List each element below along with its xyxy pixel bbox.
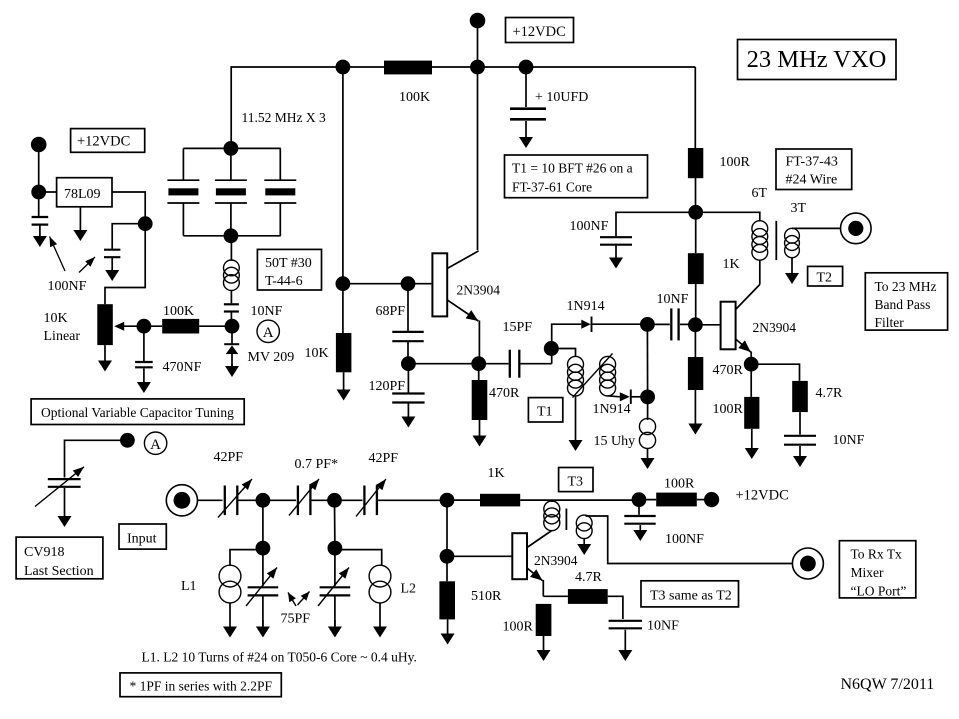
wire: decoupling branch (616, 212, 696, 236)
capacitor 10NF (Q3 bypass) (609, 621, 642, 629)
svg-text:68PF: 68PF (376, 304, 406, 319)
inductor 50T #30 coil (224, 236, 240, 291)
ground under 510R (441, 619, 455, 644)
test point A (varactor) (257, 320, 279, 342)
label 68PF (376, 304, 406, 319)
svg-text:+12VDC: +12VDC (77, 134, 130, 150)
regulator 78L09 box (57, 178, 112, 207)
title box 23 MHz VXO (738, 40, 897, 80)
ground under output 100NF (105, 258, 119, 281)
ground under 75PF (second) (328, 620, 342, 638)
capacitor 100NF (T2 node) (600, 237, 632, 245)
node: Q2 base (688, 317, 703, 332)
svg-text:“LO Port”: “LO Port” (851, 584, 907, 599)
capacitor 470NF (135, 333, 153, 367)
svg-text:+12VDC: +12VDC (513, 24, 566, 40)
svg-text:10NF: 10NF (833, 433, 865, 448)
svg-text:FT-37-61 Core: FT-37-61 Core (512, 180, 592, 195)
wire: base net to Q1 (343, 283, 433, 285)
ground under 470R (Q2) (688, 390, 702, 435)
transformer T3 secondary (576, 515, 592, 539)
resistor 470R (Q1 emitter) (472, 364, 488, 420)
resistor 100K (top bias) (384, 61, 432, 75)
T2 core bar (775, 221, 777, 260)
capacitor 100NF (input) (32, 217, 49, 225)
svg-text:1N914: 1N914 (593, 402, 631, 417)
svg-text:4.7R: 4.7R (816, 386, 844, 401)
terminal +12VDC top (470, 13, 486, 29)
terminal +12VDC left (31, 137, 47, 153)
svg-text:120PF: 120PF (369, 379, 406, 394)
svg-text:Mixer: Mixer (851, 565, 884, 580)
diode 1N914 (top) (581, 317, 641, 333)
capacitor + 10UFD (510, 67, 588, 119)
node: rail junction to oscillator base feed (336, 60, 351, 75)
wire: T2 primary top (696, 212, 760, 221)
ground under 470R (473, 420, 487, 447)
svg-text:N6QW 7/2011: N6QW 7/2011 (841, 676, 935, 693)
wire: base to Q3 (447, 555, 512, 557)
svg-text:10NF: 10NF (647, 619, 679, 634)
node: 68PF tap (401, 276, 416, 291)
label 15PF (503, 320, 533, 335)
svg-text:T3: T3 (568, 475, 584, 490)
pot wiper arrow (114, 322, 145, 331)
svg-text:A: A (150, 437, 161, 453)
svg-text:470R: 470R (489, 386, 520, 401)
Q1 emitter lead with arrow (448, 300, 480, 364)
svg-text:470R: 470R (713, 363, 744, 378)
box To 23 MHz Band Pass Filter (865, 273, 947, 330)
label 15 Uhy (594, 434, 636, 449)
svg-text:10NF: 10NF (251, 304, 283, 319)
label 6T (752, 186, 768, 201)
svg-text:Linear: Linear (44, 329, 81, 344)
wire: tap to T1 primary (551, 349, 575, 358)
wire from +12V terminal down (38, 145, 40, 217)
svg-text:100R: 100R (720, 155, 751, 170)
label MV 209 (248, 350, 295, 365)
svg-text:100R: 100R (503, 620, 534, 635)
svg-text:#24 Wire: #24 Wire (786, 173, 838, 188)
label 75PF (281, 612, 311, 627)
box FT-37-43 #24 Wire (776, 149, 852, 190)
terminal +12VDC (bottom) (704, 492, 719, 507)
label 510R (471, 589, 502, 604)
node at 78L09 input (31, 185, 46, 200)
wire: +12V drop to Q1 collector (477, 21, 479, 251)
node at varactor (225, 319, 240, 334)
box T1 (528, 398, 562, 422)
label 11.52 MHz X 3 (242, 110, 326, 125)
box note 1PF series (120, 673, 281, 697)
wire: secondary to output (792, 227, 840, 229)
svg-text:MV 209: MV 209 (248, 350, 295, 365)
resistor 100R (collector feed) (688, 148, 703, 178)
wire: up to diode (552, 324, 582, 348)
svg-text:2N3904: 2N3904 (534, 553, 578, 568)
transformer T2 secondary 3T (785, 228, 800, 257)
ground under 75PF (first) (256, 620, 270, 638)
ground under input 100NF (33, 226, 47, 248)
label 470R (Q2) (713, 363, 744, 378)
node on crystal top bus (224, 141, 239, 156)
box T3 same as T2 (641, 581, 739, 607)
box To Rx Tx Mixer LO Port (839, 541, 915, 599)
transistor Q3 2N3904 body (512, 533, 527, 579)
label 10NF (varactor) (251, 304, 283, 319)
svg-text:1K: 1K (488, 466, 505, 481)
svg-text:100R: 100R (713, 402, 744, 417)
box +12VDC (top) (506, 18, 574, 43)
transformer T3 primary (544, 500, 560, 531)
svg-text:100NF: 100NF (48, 279, 87, 294)
label 100K (399, 90, 430, 105)
label 1N914 (bottom) (593, 402, 631, 417)
wire+ arrow below CV918 cap (58, 488, 72, 527)
svg-text:CV918: CV918 (24, 545, 64, 560)
inductor L1 (219, 565, 241, 603)
svg-text:2N3904: 2N3904 (753, 320, 797, 335)
svg-text:* 1PF in series with 2.2PF: * 1PF in series with 2.2PF (130, 679, 273, 694)
svg-text:+12VDC: +12VDC (736, 488, 789, 504)
box +12VDC (left) (71, 129, 145, 153)
svg-text:15 Uhy: 15 Uhy (594, 434, 636, 449)
node: filter node 2 (327, 493, 342, 508)
transformer T2 primary 6T (752, 221, 768, 285)
svg-text:6T: 6T (752, 186, 768, 201)
label 120PF (369, 379, 406, 394)
svg-text:10K: 10K (44, 311, 68, 326)
transformer T1 secondary winding (600, 356, 616, 396)
svg-text:FT-37-43: FT-37-43 (786, 155, 838, 170)
wire: emitter to 4.7R (751, 364, 799, 381)
node: +12V rail at collector feed (470, 60, 485, 75)
svg-text:470NF: 470NF (163, 360, 202, 375)
capacitor 10NF (interstage) (647, 308, 690, 340)
svg-text:Optional Variable Capacitor Tu: Optional Variable Capacitor Tuning (41, 405, 234, 420)
capacitor 100NF (output) (104, 250, 120, 258)
svg-text:23 MHz VXO: 23 MHz VXO (747, 46, 887, 73)
node: Q2 emitter (744, 357, 759, 372)
wire: 9V to potentiometer (105, 224, 145, 305)
varactor MV209 (224, 333, 239, 366)
wire: crystal bottom bus (183, 235, 280, 237)
box 50T #30 T-44-6 (257, 249, 321, 290)
wire: to L1 (230, 550, 263, 566)
label 3T (791, 201, 807, 216)
svg-text:3T: 3T (791, 201, 807, 216)
wire: T1 secondary to diode (608, 396, 620, 397)
Q2 collector lead (736, 285, 760, 310)
resistor 100K (tuning) (144, 319, 232, 334)
svg-text:100NF: 100NF (665, 532, 704, 547)
svg-text:4.7R: 4.7R (575, 570, 603, 585)
label 100R (+12V) (664, 477, 695, 492)
test point A (tuning) (144, 432, 166, 454)
box Input (119, 524, 166, 549)
variable capacitor 75PF (second) (318, 548, 350, 626)
node: filter node 1 (256, 493, 271, 508)
ground under 15 Uhy (641, 448, 655, 469)
wire: crystal top bus (183, 147, 280, 149)
wire: 78L09 output (112, 192, 145, 224)
resistor 100R (+12V entry) (639, 493, 705, 507)
ground under 120PF (401, 404, 415, 428)
diode 1N914 (bottom) (620, 390, 641, 405)
label 10NF (interstage) (657, 292, 689, 307)
svg-text:To Rx Tx: To Rx Tx (851, 547, 903, 562)
svg-text:Input: Input (127, 532, 157, 547)
crystal Y1 11.52 MHz (167, 148, 199, 235)
box T3 (559, 468, 593, 492)
ground under 470NF (137, 369, 151, 394)
ground pin of 78L09 (73, 207, 87, 241)
transformer T1 primary winding (568, 356, 584, 396)
svg-text:15PF: 15PF (503, 320, 533, 335)
wire: rail corner down to 100R (694, 67, 696, 149)
label 100NF with pointer arrows (48, 237, 96, 295)
transistor Q2 2N3904 body (721, 302, 736, 350)
label 42PF (second) (369, 451, 399, 466)
svg-text:100K: 100K (163, 304, 194, 319)
wire: to L2 (335, 550, 382, 566)
label +12VDC (bottom) (736, 488, 789, 504)
label 1K (driver) (488, 466, 505, 481)
ground under 10K (337, 372, 351, 400)
transistor Q1 2N3904 body (432, 253, 447, 316)
label 100K (tuning) (163, 304, 194, 319)
label 100NF (T2 node) (570, 219, 609, 234)
node at 9V output (138, 216, 153, 231)
label 100R (Q3) (503, 620, 534, 635)
svg-text:To 23 MHz: To 23 MHz (875, 279, 937, 294)
label 42PF (first) (214, 450, 244, 465)
resistor 1K (driver base feed) (447, 494, 632, 507)
output connector (23 MHz) (841, 213, 872, 244)
resistor 4.7R (Q3) (543, 589, 623, 619)
variable capacitor 0.7 PF* (289, 479, 328, 516)
variable capacitor CV918 (35, 467, 84, 507)
ground under Q2 100R (745, 429, 759, 459)
svg-text:75PF: 75PF (281, 612, 311, 627)
node: L2 tank (328, 541, 343, 556)
label 470R (Q1) (489, 386, 520, 401)
svg-text:T1 = 10 BFT #26 on a: T1 = 10 BFT #26 on a (512, 161, 633, 176)
node: +12V entry node (632, 492, 647, 507)
label 0.7 PF* (295, 457, 339, 472)
variable capacitor 42PF (first) (218, 479, 256, 518)
wire: crystal top bus riser and +12V rail corner (231, 67, 695, 148)
wire (263, 499, 296, 501)
input connector (166, 485, 197, 516)
ground under MV209 (225, 364, 239, 377)
node: oscillator base net (336, 276, 351, 291)
svg-text:T-44-6: T-44-6 (265, 274, 303, 289)
T3 core bar (565, 509, 567, 531)
svg-text:42PF: 42PF (214, 450, 244, 465)
node on crystal bottom bus (224, 228, 239, 243)
node: L1 tank (256, 541, 271, 556)
label 10NF (Q2) (833, 433, 865, 448)
capacitor 10NF (Q2 bypass) (784, 412, 816, 445)
svg-text:Filter: Filter (875, 315, 905, 330)
svg-text:A: A (263, 325, 274, 341)
ground under Q3 100R (537, 636, 551, 661)
ground under 100NF (609, 246, 623, 269)
variable capacitor 42PF (second) (356, 479, 440, 517)
label 2N3904 (Q2) (753, 320, 797, 335)
svg-text:1K: 1K (723, 257, 740, 272)
LO port connector (792, 548, 823, 579)
ground under L1 (223, 603, 237, 638)
wire: node2 down (334, 500, 336, 548)
capacitor 68PF (392, 284, 423, 364)
capacitor 100NF (+12V entry) (624, 500, 655, 524)
svg-text:2N3904: 2N3904 (457, 283, 501, 298)
label 1N914 (top) (567, 299, 605, 314)
resistor 100R (Q2 emitter) (744, 364, 759, 429)
svg-text:+ 10UFD: + 10UFD (535, 90, 588, 105)
node: filter node 3 (440, 493, 455, 508)
inductor L2 (369, 565, 391, 603)
node: AGC bottom (640, 390, 655, 405)
resistor 510R (439, 556, 455, 619)
svg-text:T2: T2 (817, 271, 833, 286)
label 100R (Q2) (713, 402, 744, 417)
ground under L2 (373, 603, 387, 638)
wire: input to 42PF (198, 499, 223, 501)
svg-text:100R: 100R (664, 477, 695, 492)
label 100R (top) (720, 155, 751, 170)
ground under T2 secondary (785, 257, 799, 284)
label 10NF (Q3) (647, 619, 679, 634)
wire: 100R to node chain (695, 178, 697, 212)
label 2N3904 (Q1) (457, 283, 501, 298)
label L2 (401, 582, 417, 597)
svg-text:78L09: 78L09 (64, 187, 101, 202)
box T2 (808, 266, 843, 286)
label L1 (181, 579, 197, 594)
svg-text:100K: 100K (399, 90, 430, 105)
wire: AGC vertical (646, 324, 648, 397)
note L1 L2 winding (142, 650, 417, 665)
Q3 emitter lead with arrow (527, 568, 543, 596)
label 4.7R (Q3) (575, 570, 603, 585)
wire: emitter node segment (408, 363, 478, 365)
capacitor 120PF (392, 364, 424, 403)
capacitor 15PF (479, 350, 552, 378)
resistor 470R (Q2 base-gnd) (688, 325, 703, 390)
svg-text:10K: 10K (305, 346, 329, 361)
T1 coupling slash (573, 354, 613, 398)
node: T2 feed (688, 205, 703, 220)
ground under T3 secondary (577, 539, 591, 556)
node: detector tap (544, 341, 559, 364)
box CV918 Last Section (16, 537, 103, 579)
potentiometer 10K Linear (97, 304, 113, 345)
inductor 15 Uhy (639, 397, 655, 449)
wire to output 100NF (112, 224, 145, 249)
resistor 100R (Q3 emitter) (536, 604, 552, 636)
crystal Y3 11.52 MHz (264, 148, 296, 235)
label 2N3904 (Q3) (534, 553, 578, 568)
svg-text:11.52 MHz X 3: 11.52 MHz X 3 (242, 110, 326, 125)
capacitor 10NF (varactor coupling) (224, 291, 239, 319)
label 10K (305, 346, 329, 361)
svg-text:0.7 PF*: 0.7 PF* (295, 457, 339, 472)
ground under potentiometer (98, 345, 112, 371)
signature N6QW 7/2011 (841, 676, 935, 693)
node: feedback divider (401, 356, 416, 371)
svg-text:T1: T1 (537, 405, 553, 420)
ground under Q2 10NF (793, 446, 807, 467)
wire: node1 down (262, 500, 264, 548)
svg-text:10NF: 10NF (657, 292, 689, 307)
wire: base to Q2 (695, 324, 720, 326)
label 100NF (entry) (665, 532, 704, 547)
svg-text:50T #30: 50T #30 (265, 256, 312, 271)
svg-text:L1. L2 10 Turns of #24 on T050: L1. L2 10 Turns of #24 on T050-6 Core ~ … (142, 650, 417, 665)
label 1K (723, 257, 740, 272)
label 10K Linear (44, 311, 81, 344)
variable capacitor 75PF (first) (246, 548, 278, 626)
ground under T1 primary (569, 396, 583, 451)
svg-text:L2: L2 (401, 582, 417, 597)
ground under entry 100NF (633, 525, 647, 541)
Q3 collector lead (527, 531, 552, 548)
svg-text:42PF: 42PF (369, 451, 399, 466)
Q1 collector lead (447, 251, 478, 269)
resistor 4.7R (Q2) (792, 381, 808, 412)
resistor 10K (base to gnd) (336, 284, 352, 373)
node: rail at 10UFD (519, 60, 534, 75)
box T1 winding note (505, 155, 648, 198)
svg-text:100NF: 100NF (570, 219, 609, 234)
wire: node3 down (446, 500, 448, 556)
ground under Q3 10NF (618, 630, 632, 661)
svg-text:T3 same as T2: T3 same as T2 (650, 589, 732, 604)
wire: T3 secondary to LO port (586, 516, 793, 564)
crystal Y2 11.52 MHz (215, 148, 247, 235)
svg-text:L1: L1 (181, 579, 197, 594)
svg-text:1N914: 1N914 (567, 299, 605, 314)
label 4.7R (Q2) (816, 386, 844, 401)
svg-text:Band Pass: Band Pass (875, 297, 931, 312)
node at wiper (137, 319, 152, 334)
svg-text:510R: 510R (471, 589, 502, 604)
wire: vertical from rail to oscillator base node (342, 67, 344, 284)
resistor 1K (base feed) (688, 212, 704, 324)
wire: terminal to variable cap (65, 440, 128, 477)
wire to 78L09 input (39, 191, 57, 193)
ganged arrows (288, 592, 310, 607)
box Optional Variable Capacitor Tuning (31, 399, 244, 425)
terminal to varactor node (120, 433, 135, 448)
svg-text:Last Section: Last Section (24, 564, 94, 579)
node: AGC top (640, 317, 655, 332)
Q2 emitter lead with arrow (736, 339, 752, 364)
label 470NF (163, 360, 202, 375)
node: Q3 base (440, 549, 455, 564)
node: Q1 emitter (471, 356, 486, 371)
wire (335, 499, 363, 501)
ground under 10UFD (519, 121, 533, 148)
